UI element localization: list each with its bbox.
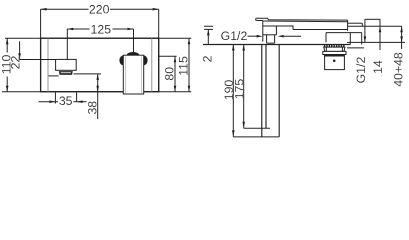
svg-text:40+48: 40+48: [391, 52, 405, 87]
svg-text:80: 80: [163, 67, 177, 81]
outlet thread: [267, 35, 275, 43]
dim 2 ticks: [204, 26, 213, 29]
outlet right edge: [275, 26, 277, 35]
dim 125 line: [67, 28, 89, 30]
inlet flange hatch: [325, 45, 344, 48]
behind-wall lower tick: [347, 47, 364, 49]
handle top bulge: [127, 52, 140, 59]
escutcheon right vertical: [361, 33, 363, 45]
svg-text:22: 22: [8, 56, 22, 70]
escutcheon top: [326, 32, 362, 34]
dim 80 tick: [159, 55, 177, 57]
inlet nut: [324, 47, 345, 51]
dim 80 line: [174, 56, 176, 91]
spout front view: [56, 59, 77, 70]
mid reference line: [348, 25, 402, 27]
dim 110 line: [6, 38, 8, 91]
G1/2 right arrow: [284, 35, 301, 37]
plate inner left line: [47, 38, 49, 91]
dim 40+48 line: [401, 26, 403, 49]
outlet collar: [263, 34, 277, 36]
svg-text:125: 125: [91, 23, 112, 37]
blade underside line: [263, 20, 348, 23]
svg-text:14: 14: [371, 60, 385, 74]
handle stem / 125 right extension: [133, 29, 135, 52]
escutcheon left edge: [325, 33, 327, 43]
svg-text:175: 175: [233, 79, 247, 100]
dim 14 line: [379, 19, 381, 50]
supply pipe: [262, 45, 279, 137]
plate bottom extension line: [2, 91, 191, 93]
dim 35 line: [39, 101, 59, 103]
behind-wall small vertical: [361, 23, 363, 26]
svg-text:35: 35: [59, 94, 73, 108]
dim 115 line: [188, 38, 190, 91]
svg-text:G1/2: G1/2: [354, 57, 368, 84]
outlet left edge: [262, 21, 264, 42]
svg-text:115: 115: [177, 56, 191, 76]
dim 35 ticks: [54, 93, 56, 104]
plate left edge + 220 extension: [40, 9, 42, 92]
spout underside: [263, 26, 293, 30]
125 left extension: [66, 29, 68, 60]
small ledge line left of aerator: [49, 75, 59, 77]
dim 175 tick: [244, 127, 270, 129]
inlet screw dot: [333, 60, 336, 63]
handle left bulge: [119, 55, 128, 65]
plate right edge + 220 extension: [158, 9, 160, 92]
dim 220 line: [41, 8, 89, 10]
dim G1/2 wall line: [364, 19, 366, 42]
G1/2 left arrow: [248, 35, 258, 37]
svg-text:220: 220: [89, 3, 110, 17]
dim 22 line: [19, 41, 21, 59]
plate outline emphasis: [41, 38, 159, 91]
dim 22 tick: [20, 59, 56, 61]
handle front view: [123, 55, 143, 94]
dim 38 extension (aerator bottom): [74, 73, 102, 75]
escutcheon mid vertical: [349, 33, 351, 45]
plate top extension line: [5, 37, 191, 39]
pipe bottom / 190 tick: [233, 136, 279, 138]
svg-text:38: 38: [86, 101, 100, 115]
inlet square dark top band: [325, 55, 345, 57]
handle inner highlight lines: [125, 57, 127, 94]
plate inner right line: [151, 38, 153, 91]
behind-wall upper stub: [348, 22, 363, 24]
handle right bulge: [139, 55, 148, 65]
body top line: [293, 29, 348, 31]
dim 2 line: [207, 29, 209, 44]
svg-text:2: 2: [201, 55, 215, 62]
blade bottom: [256, 20, 263, 22]
spout blade top: [256, 18, 348, 20]
dim 38 line: [97, 74, 99, 119]
body bottom reference line: [203, 44, 350, 46]
dim 190 line: [232, 45, 234, 137]
inlet square body: [325, 55, 345, 70]
blade end drop at wall: [347, 20, 349, 31]
wall reference line top: [365, 18, 380, 20]
dim 175 line: [243, 45, 245, 129]
aerator: [59, 71, 73, 75]
inlet band: [323, 51, 346, 54]
wall reference line low: [347, 41, 405, 43]
svg-text:G1/2: G1/2: [221, 29, 248, 43]
